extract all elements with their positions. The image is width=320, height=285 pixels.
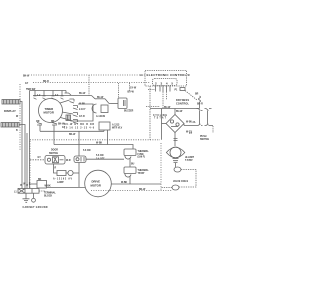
terminal block TB1 [18, 189, 39, 194]
valve A1213 box [99, 122, 110, 145]
svg-text:CABINET GROUND: CABINET GROUND [23, 206, 48, 209]
wire to buzzer [111, 103, 119, 105]
svg-text:BU-W: BU-W [164, 107, 171, 109]
thermostat TF2 [124, 167, 136, 184]
svg-text:TSTAT: TSTAT [154, 117, 167, 120]
wire start feed [199, 102, 201, 109]
svg-text:THERMAL: THERMAL [138, 169, 150, 172]
svg-text:GY: GY [62, 127, 66, 129]
wire dashed right vertical [160, 143, 162, 190]
lamp assembly [57, 170, 73, 175]
svg-text:W: W [16, 116, 19, 118]
svg-text:PUSH: PUSH [200, 136, 207, 138]
motor timer M1 [39, 99, 63, 123]
wire vertical w3 [26, 133, 28, 189]
buzzer B1 [118, 98, 127, 109]
svg-text:W-BK: W-BK [45, 186, 52, 188]
svg-text:BK-W: BK-W [69, 134, 76, 136]
wire dashed bottom bus [91, 190, 172, 192]
svg-text:A-12162 AV: A-12162 AV [53, 177, 72, 180]
wire control pin dashes [163, 92, 167, 109]
svg-text:BK-R: BK-R [197, 104, 203, 106]
svg-text:ELECTRONIC CONTROL: ELECTRONIC CONTROL [147, 73, 187, 77]
svg-text:L1: L1 [140, 75, 143, 77]
coil valve 1 [174, 167, 181, 172]
wire burner down [175, 163, 177, 167]
switch belt S3 [74, 156, 86, 163]
svg-text:10 16 12 2-13 4-6: 10 16 12 2-13 4-6 [64, 127, 95, 130]
svg-text:BU: BU [131, 164, 135, 166]
thermostat diamond [166, 115, 184, 133]
wire PU-W line [150, 108, 200, 110]
svg-text:A-1213S: A-1213S [96, 115, 106, 118]
svg-text:COILS: COILS [181, 181, 188, 183]
connector J2 display [1, 123, 19, 128]
svg-text:BU-W: BU-W [97, 97, 104, 99]
terminal screw [33, 193, 35, 198]
svg-text:BU-W GY BK R OR: BU-W GY BK R OR [64, 124, 94, 126]
wire timer bottom feed [40, 130, 104, 132]
svg-text:LAMP: LAMP [57, 181, 64, 184]
control board dashed box [140, 71, 191, 87]
svg-text:(196 F): (196 F) [138, 157, 146, 159]
svg-text:WTR VLV: WTR VLV [112, 128, 123, 130]
wire feed box2 [30, 183, 37, 185]
svg-text:RD: RD [51, 121, 55, 123]
wire lamp right [73, 172, 79, 174]
wire into motor [47, 186, 86, 188]
svg-text:5-6 ON: 5-6 ON [96, 155, 104, 157]
wire diamond bottom [174, 133, 176, 147]
thermostat thermal fuse TF1 [124, 149, 136, 167]
svg-text:GY: GY [38, 157, 42, 159]
connector timer pins hatched [66, 115, 71, 121]
relay coil horseshoe [92, 104, 108, 113]
wire dashed ctl tail [148, 89, 155, 91]
ground [23, 193, 30, 202]
svg-text:BLOCK: BLOCK [44, 196, 53, 198]
svg-text:BK: BK [38, 179, 42, 181]
wire timer rail2 [33, 95, 92, 97]
switch ladder rung2 [73, 106, 78, 110]
wire dashed P1 diag [185, 91, 197, 101]
svg-text:DRYNESS: DRYNESS [176, 99, 189, 102]
wire dashed bus top1 [31, 74, 145, 76]
svg-text:W-BK: W-BK [121, 182, 128, 184]
wire w-bk line [54, 145, 133, 150]
switch timer contact row [34, 91, 64, 100]
wire cam diagonals [60, 100, 73, 121]
wire diamond right lead [184, 124, 197, 126]
coil valve 2 [172, 185, 179, 190]
svg-text:HI-LIMIT: HI-LIMIT [185, 157, 195, 159]
wire motor right [111, 183, 161, 185]
burner igniter [166, 147, 184, 162]
wire seg [97, 98, 106, 100]
svg-text:BK-W: BK-W [139, 189, 146, 191]
wire dashed valve left [161, 187, 172, 189]
svg-text:GY-W: GY-W [130, 88, 137, 90]
connector strain squiggle [199, 96, 201, 102]
svg-text:2A: 2A [193, 121, 196, 124]
svg-text:BK-R: BK-R [43, 81, 49, 83]
svg-text:GY: GY [25, 83, 29, 85]
svg-text:CY: CY [189, 133, 193, 135]
connector J1 display [2, 100, 20, 105]
wire dashed block tail [39, 190, 45, 192]
svg-text:BK-W: BK-W [23, 76, 30, 78]
svg-text:MOTOR: MOTOR [44, 111, 54, 115]
wire dashed buzzer top [129, 83, 131, 91]
switch ladder rung3 [73, 113, 78, 117]
svg-text:TERMINAL: TERMINAL [44, 192, 56, 195]
resistor small box [37, 181, 47, 189]
svg-text:T-STAT: T-STAT [185, 159, 193, 162]
wire diamond left lead [162, 123, 167, 125]
wire dashed console bottom [30, 139, 160, 141]
wire left of diamond [161, 109, 163, 140]
svg-text:B: B [16, 130, 18, 132]
wire dashed buzzer top2 [118, 83, 120, 98]
wire dashed mid drop [88, 75, 90, 96]
svg-text:OR: OR [36, 121, 40, 123]
svg-text:P1: P1 [175, 90, 179, 92]
wire timer top rail [30, 90, 67, 92]
switch ladder rung4 [73, 120, 78, 124]
svg-text:SWITCH: SWITCH [200, 139, 209, 141]
switch timer bottom contacts [37, 123, 57, 145]
svg-text:GY-R: GY-R [79, 116, 85, 118]
svg-text:FUSE: FUSE [138, 154, 145, 156]
wire belt to tstat [86, 158, 124, 160]
switch door S2 [45, 156, 65, 165]
switch start S1 [197, 109, 214, 126]
svg-text:BR: BR [195, 94, 199, 96]
svg-text:W-BK: W-BK [96, 142, 103, 144]
svg-text:W-R: W-R [66, 160, 71, 162]
svg-text:2 3 4 5: 2 3 4 5 [155, 81, 173, 85]
svg-text:BUZZER: BUZZER [124, 111, 134, 113]
switch timer rung 0 [65, 91, 72, 96]
svg-text:THERMAL: THERMAL [138, 150, 150, 153]
wire door dashed left [30, 159, 45, 161]
wire dashed bus top2 [33, 82, 150, 84]
wire dashed seg [146, 106, 160, 108]
wire diamond top stub [174, 109, 176, 115]
svg-text:DOOR: DOOR [51, 150, 58, 152]
svg-text:TSTAT: TSTAT [138, 172, 146, 175]
svg-text:W: W [188, 75, 191, 77]
wire dashed console boundary left [19, 84, 21, 150]
wire vertical timer left [29, 91, 31, 189]
wire display2 down [19, 125, 25, 189]
connector igniter plug [174, 139, 178, 141]
svg-text:BU-W: BU-W [128, 92, 135, 94]
svg-text:VALVE: VALVE [173, 180, 181, 183]
svg-text:L1: L1 [14, 191, 17, 193]
connector P1 pin [180, 88, 185, 91]
svg-text:SWITCH: SWITCH [49, 153, 58, 155]
wire selector to motor [78, 131, 80, 187]
motor drive M2 [85, 170, 112, 197]
wire box route [71, 104, 94, 121]
switch push-to-start contact [92, 96, 97, 99]
svg-text:BU-W: BU-W [79, 93, 86, 95]
svg-text:2-1CY: 2-1CY [79, 109, 86, 111]
svg-text:5-6 ON: 5-6 ON [83, 150, 91, 152]
wire dashed control drop [149, 86, 151, 140]
svg-text:BU-W: BU-W [176, 111, 183, 113]
svg-text:BK-W: BK-W [58, 124, 65, 126]
svg-text:R: R [55, 168, 57, 170]
svg-text:MOTOR: MOTOR [91, 184, 101, 188]
svg-text:A 1213: A 1213 [112, 124, 120, 127]
wire display1 to bus [20, 102, 22, 189]
svg-text:DISPLAY: DISPLAY [4, 109, 16, 113]
switch timer ladder rung1 [70, 99, 75, 103]
svg-text:CYCLING: CYCLING [153, 115, 167, 117]
wire dashed start bottom [212, 126, 214, 133]
svg-text:CONTROL: CONTROL [176, 103, 189, 106]
wire control pins [156, 86, 171, 92]
wire door down [54, 164, 58, 173]
switch contact 2 [105, 99, 111, 104]
wire dashed vertical left-bottom [29, 141, 31, 188]
wire dashed valve right [179, 170, 196, 188]
